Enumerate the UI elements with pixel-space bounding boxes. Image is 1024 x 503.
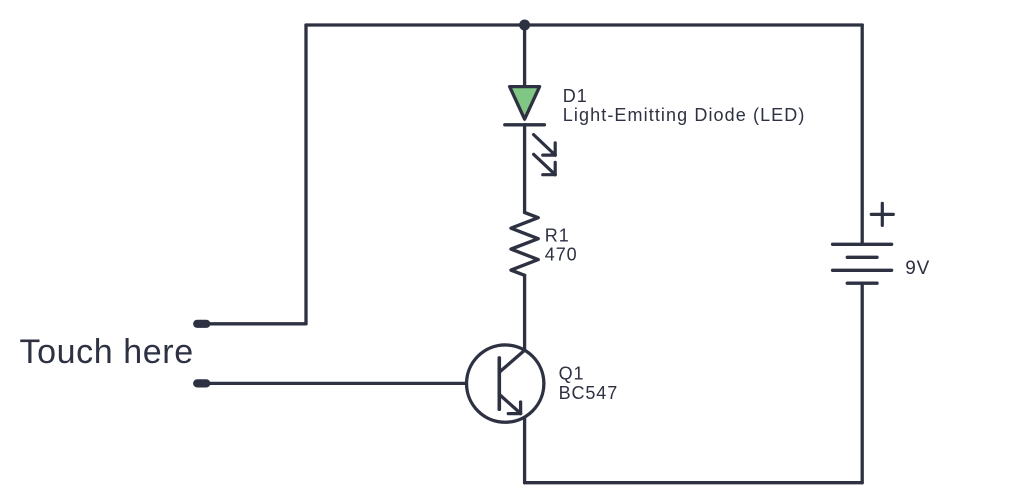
svg-text:9V: 9V bbox=[905, 258, 930, 279]
svg-text:D1: D1 bbox=[563, 86, 588, 106]
transistor Q1 base bar bbox=[497, 358, 501, 409]
svg-text:470: 470 bbox=[545, 245, 578, 265]
LED D1 emission arrow 2 bbox=[534, 154, 556, 174]
wire base (terminal 2 to transistor base bar) bbox=[202, 382, 499, 385]
wire LED cathode to resistor bbox=[523, 125, 526, 213]
LED D1 emission arrow 1 bbox=[534, 135, 556, 156]
LED D1 triangle bbox=[510, 87, 540, 120]
battery BT1 plates bbox=[833, 244, 892, 283]
wire LED anode bbox=[523, 25, 526, 87]
wire left vertical bbox=[304, 25, 307, 324]
svg-text:R1: R1 bbox=[545, 225, 570, 245]
svg-text:BC547: BC547 bbox=[559, 383, 619, 403]
svg-text:Q1: Q1 bbox=[559, 363, 585, 383]
wire battery negative lead bbox=[861, 283, 864, 483]
transistor Q1 collector stroke bbox=[499, 350, 524, 372]
svg-text:Touch here: Touch here bbox=[20, 333, 194, 371]
touch terminal 1 bbox=[193, 320, 210, 328]
battery plus sign bbox=[871, 203, 893, 225]
touch terminal 2 bbox=[193, 379, 210, 387]
node junction dot bbox=[519, 20, 530, 31]
wire emitter lead bbox=[523, 417, 526, 483]
transistor Q1 emitter arrowhead bbox=[508, 402, 520, 414]
wire bottom rail bbox=[525, 481, 863, 484]
transistor Q1 circle bbox=[467, 345, 544, 422]
wire touch terminal 1 to left rail bbox=[202, 322, 306, 325]
transistor Q1 emitter stroke bbox=[499, 394, 520, 413]
resistor R1 zigzag bbox=[511, 213, 538, 276]
wire top rail bbox=[306, 23, 862, 26]
svg-text:Light-Emitting Diode (LED): Light-Emitting Diode (LED) bbox=[563, 105, 806, 125]
wire battery positive lead bbox=[861, 25, 864, 244]
wire resistor to collector bbox=[523, 275, 526, 350]
LED D1 cathode bar bbox=[505, 123, 545, 126]
